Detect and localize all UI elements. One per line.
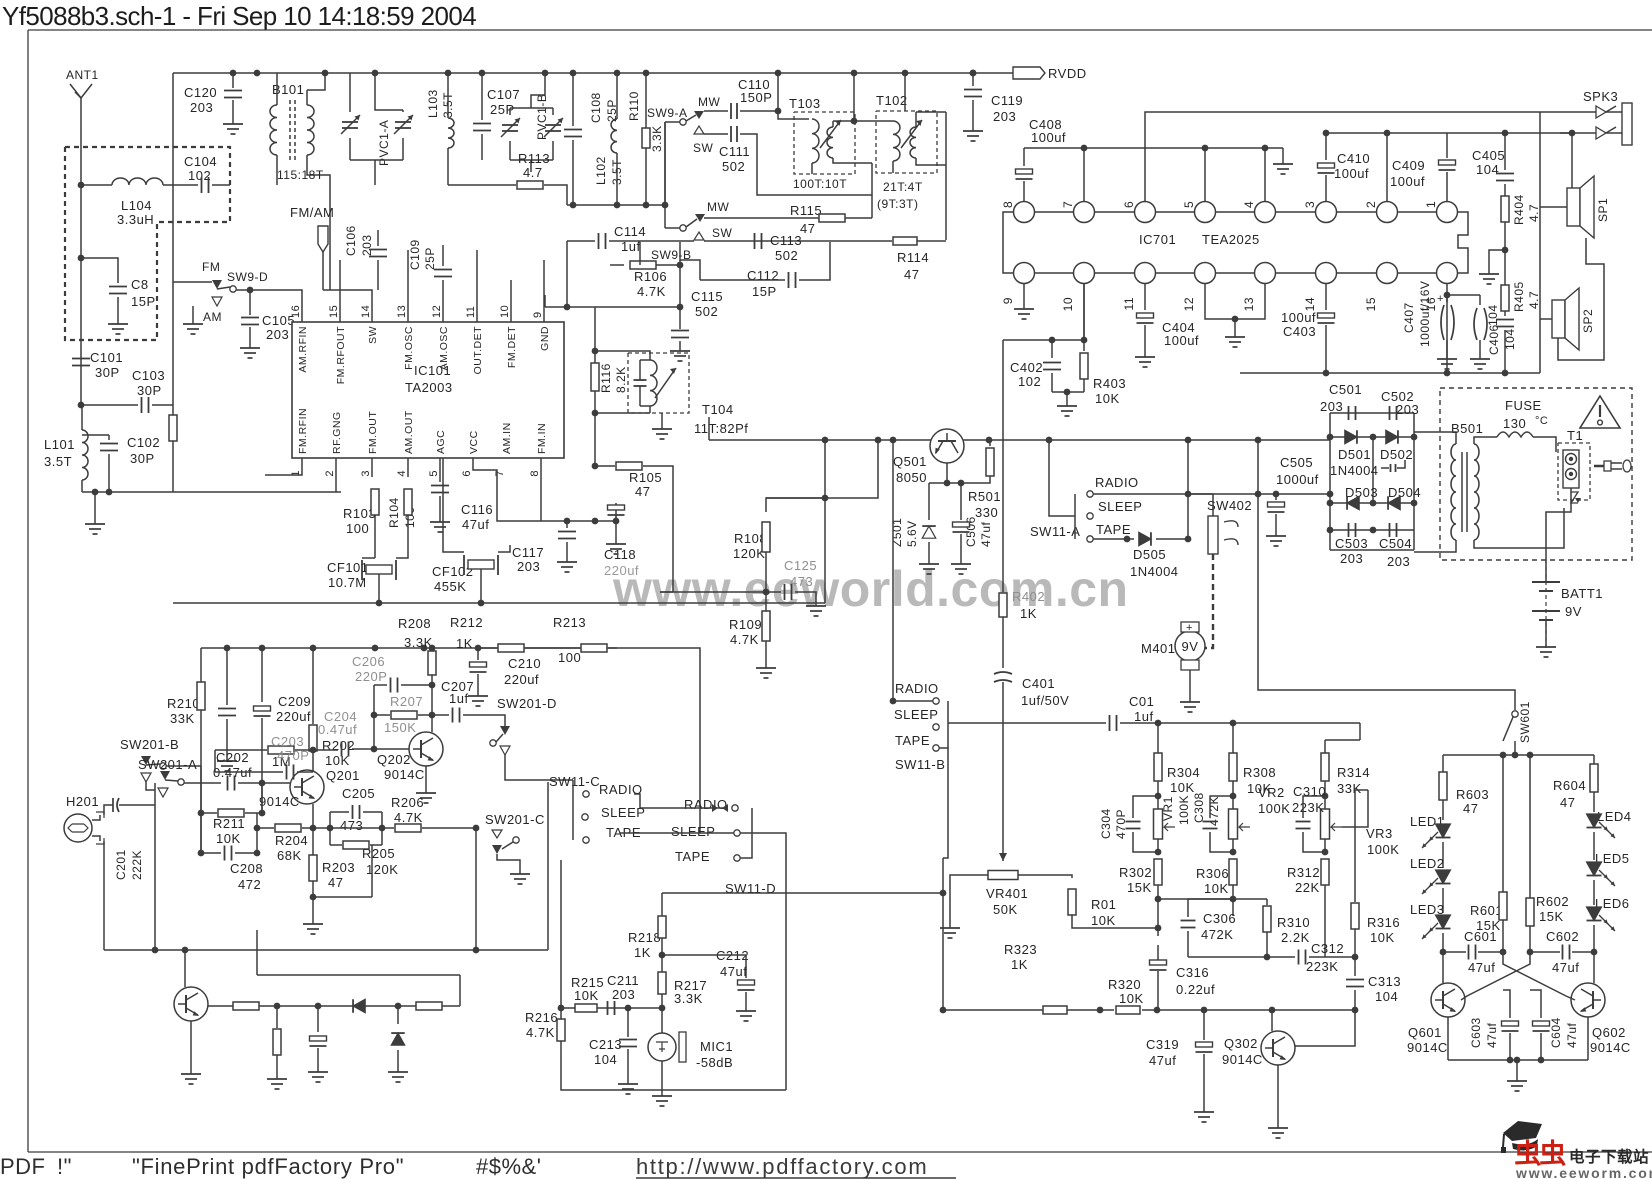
- svg-text:22K: 22K: [1295, 880, 1320, 895]
- svg-text:12: 12: [431, 305, 443, 318]
- svg-text:223K: 223K: [1292, 800, 1324, 815]
- dashed selection box: [65, 147, 230, 340]
- ground Z501: [928, 558, 930, 564]
- svg-text:Q302: Q302: [1224, 1036, 1258, 1051]
- svg-text:C109: C109: [408, 239, 422, 270]
- svg-text:100uf: 100uf: [1334, 166, 1369, 181]
- svg-text:C604: C604: [1549, 1017, 1563, 1048]
- svg-text:4.7K: 4.7K: [526, 1025, 555, 1040]
- wire osc collector row: [208, 1005, 460, 1007]
- svg-text:7: 7: [1061, 201, 1075, 208]
- svg-text:21T:4T: 21T:4T: [883, 180, 923, 194]
- svg-text:SP1: SP1: [1596, 198, 1610, 222]
- svg-text:102: 102: [1018, 374, 1041, 389]
- svg-text:10K: 10K: [574, 988, 599, 1003]
- svg-text:SW11-A: SW11-A: [1030, 524, 1080, 539]
- svg-text:1N4004: 1N4004: [1330, 463, 1379, 478]
- svg-text:2: 2: [1364, 201, 1378, 208]
- svg-text:33K: 33K: [1337, 781, 1362, 796]
- svg-text:13: 13: [396, 305, 408, 318]
- svg-text:104: 104: [1375, 989, 1398, 1004]
- svg-text:C125: C125: [784, 558, 817, 573]
- capacitor small bridge: [1390, 464, 1392, 472]
- svg-text:T1: T1: [1567, 428, 1583, 443]
- svg-text:(9T:3T): (9T:3T): [877, 197, 919, 211]
- svg-text:C402: C402: [1010, 360, 1043, 375]
- svg-text:C504: C504: [1379, 536, 1412, 551]
- svg-text:10K: 10K: [216, 831, 241, 846]
- svg-text:C116: C116: [461, 502, 493, 517]
- transistor Q202: [409, 732, 443, 766]
- ground SW201-C: [519, 868, 521, 874]
- svg-text:SW: SW: [712, 226, 733, 240]
- svg-text:47uf: 47uf: [1149, 1053, 1176, 1068]
- svg-text:R603: R603: [1456, 787, 1489, 802]
- svg-text:3: 3: [360, 470, 372, 477]
- IC101 top pin stubs: [339, 295, 341, 322]
- svg-text:C210: C210: [508, 656, 541, 671]
- svg-text:+: +: [1437, 293, 1444, 305]
- svg-text:#$%&': #$%&': [476, 1154, 541, 1179]
- svg-text:0.22uf: 0.22uf: [1176, 982, 1215, 997]
- wire pin10 node down: [1002, 340, 1004, 592]
- svg-text:C107: C107: [487, 87, 520, 102]
- svg-text:AM.OSC: AM.OSC: [438, 326, 450, 370]
- wire pin5 up: [1204, 148, 1206, 201]
- svg-text:T104: T104: [702, 402, 734, 417]
- svg-text:R602: R602: [1536, 894, 1569, 909]
- svg-text:C410: C410: [1337, 151, 1370, 166]
- svg-text:8: 8: [1001, 201, 1015, 208]
- svg-text:9014C: 9014C: [1222, 1052, 1263, 1067]
- svg-text:C503: C503: [1335, 536, 1368, 551]
- svg-text:L102: L102: [594, 156, 608, 185]
- svg-text:150K: 150K: [384, 720, 416, 735]
- svg-text:LED4: LED4: [1597, 809, 1632, 824]
- svg-text:SW9-A: SW9-A: [647, 106, 688, 120]
- svg-text:47: 47: [1560, 795, 1575, 810]
- svg-text:8.2K: 8.2K: [614, 366, 628, 393]
- svg-text:15K: 15K: [1539, 909, 1564, 924]
- svg-text:D503: D503: [1345, 485, 1378, 500]
- svg-text:FM/AM: FM/AM: [290, 205, 334, 220]
- svg-text:M401: M401: [1141, 641, 1176, 656]
- svg-text:-58dB: -58dB: [696, 1055, 733, 1070]
- wire pin9 ground: [1023, 284, 1025, 303]
- svg-text:L101: L101: [44, 437, 75, 452]
- svg-text:VR3: VR3: [1366, 826, 1393, 841]
- svg-text:203: 203: [1340, 551, 1363, 566]
- svg-text:15P: 15P: [752, 284, 777, 299]
- svg-text:222K: 222K: [130, 850, 144, 880]
- svg-text:Q201: Q201: [326, 768, 360, 783]
- wire bridge rails: [1330, 412, 1414, 414]
- svg-text:SW11-B: SW11-B: [895, 757, 945, 772]
- svg-text:30P: 30P: [137, 383, 162, 398]
- svg-text:1000uf/16V: 1000uf/16V: [1418, 281, 1432, 347]
- wire SW9D to IC: [236, 290, 302, 322]
- svg-text:30P: 30P: [95, 365, 120, 380]
- svg-text:223K: 223K: [1306, 959, 1338, 974]
- wire RADIO contact: [1093, 493, 1188, 495]
- svg-text:T102: T102: [876, 93, 908, 108]
- ground C319: [1203, 1106, 1205, 1112]
- svg-text:3.3uH: 3.3uH: [117, 212, 154, 227]
- svg-text:150P: 150P: [740, 90, 772, 105]
- svg-text:68K: 68K: [277, 848, 302, 863]
- svg-text:4: 4: [1242, 201, 1256, 208]
- svg-text:100K: 100K: [1177, 795, 1191, 825]
- svg-text:SPK3: SPK3: [1583, 89, 1618, 104]
- svg-text:220uf: 220uf: [604, 563, 639, 578]
- svg-text:R308: R308: [1243, 765, 1276, 780]
- svg-text:C603: C603: [1469, 1017, 1483, 1048]
- svg-text:220uf: 220uf: [276, 709, 311, 724]
- node ant-l104: [78, 182, 85, 189]
- svg-text:100K: 100K: [1367, 842, 1399, 857]
- transistor Q501: [930, 429, 964, 463]
- wire antenna down: [80, 130, 82, 405]
- svg-text:D505: D505: [1133, 547, 1166, 562]
- svg-text:PDF: PDF: [0, 1154, 46, 1179]
- node R116 top: [594, 307, 596, 466]
- svg-text:RVDD: RVDD: [1048, 66, 1087, 81]
- svg-text:10K: 10K: [1204, 881, 1229, 896]
- svg-text:472K: 472K: [1201, 927, 1233, 942]
- transistor Q602: [1571, 983, 1605, 1017]
- svg-text:15: 15: [328, 305, 340, 318]
- svg-text:R116: R116: [599, 363, 613, 393]
- wire bridge to bus: [1329, 437, 1331, 440]
- svg-text:R404: R404: [1512, 194, 1526, 225]
- svg-text:10K: 10K: [325, 753, 350, 768]
- svg-text:R105: R105: [629, 470, 662, 485]
- svg-text:D504: D504: [1388, 485, 1421, 500]
- svg-text:AM.RFIN: AM.RFIN: [297, 326, 309, 373]
- wire T1 to battery: [1546, 488, 1571, 552]
- svg-text:8: 8: [529, 470, 541, 477]
- svg-text:1uf/50V: 1uf/50V: [1021, 693, 1069, 708]
- svg-text:25P: 25P: [423, 247, 437, 270]
- svg-text:220uf: 220uf: [504, 672, 539, 687]
- wire osc second: [257, 974, 460, 976]
- wire bridge output: [1330, 549, 1414, 551]
- svg-text:9V: 9V: [1182, 639, 1199, 654]
- svg-text:R115: R115: [790, 203, 822, 218]
- svg-text:47uf: 47uf: [1552, 960, 1579, 975]
- wire pin6 VCC down: [473, 458, 541, 521]
- svg-text:47uf: 47uf: [1485, 1022, 1499, 1048]
- ground C404: [1144, 351, 1146, 357]
- svg-text:VCC: VCC: [468, 430, 480, 454]
- ground C212: [745, 1005, 747, 1011]
- svg-text:SW11-C: SW11-C: [549, 774, 600, 789]
- svg-text:FUSE: FUSE: [1505, 398, 1542, 413]
- IC U-IC101 TA2003 body: [292, 322, 564, 458]
- ground C407: [1446, 353, 1448, 359]
- svg-text:4.7K: 4.7K: [637, 284, 666, 299]
- svg-text:9014C: 9014C: [384, 767, 425, 782]
- svg-text:R310: R310: [1277, 915, 1310, 930]
- svg-text:FM.OUT: FM.OUT: [367, 411, 379, 454]
- svg-text:FM.OSC: FM.OSC: [403, 326, 415, 370]
- svg-text:1N4004: 1N4004: [1130, 564, 1179, 579]
- svg-text:R106: R106: [634, 269, 667, 284]
- ground emitter: [312, 897, 314, 918]
- svg-text:R405: R405: [1512, 281, 1526, 312]
- ground Q202: [425, 787, 427, 793]
- wire pin7 up: [1083, 148, 1085, 201]
- wire C108-L102 bottom: [567, 204, 665, 206]
- svg-text:C403: C403: [1283, 324, 1316, 339]
- svg-text:R501: R501: [968, 489, 1001, 504]
- svg-text:1K: 1K: [1011, 957, 1028, 972]
- ground C8: [117, 318, 119, 324]
- svg-text:C115: C115: [691, 289, 723, 304]
- svg-text:330: 330: [975, 505, 998, 520]
- svg-text:FM.RFIN: FM.RFIN: [297, 408, 309, 454]
- svg-text:C401: C401: [1022, 676, 1055, 691]
- svg-text:220P: 220P: [355, 669, 387, 684]
- svg-text:R211: R211: [213, 816, 245, 831]
- svg-text:http://www.pdffactory.com: http://www.pdffactory.com: [636, 1154, 928, 1179]
- svg-text:C213: C213: [589, 1037, 622, 1052]
- dashed box power: [1440, 388, 1632, 560]
- svg-text:15P: 15P: [131, 294, 156, 309]
- ground pins1213: [1234, 331, 1236, 337]
- svg-text:4: 4: [396, 470, 408, 477]
- svg-text:Z501: Z501: [890, 518, 904, 547]
- capacitor unnamed: [226, 648, 228, 705]
- svg-text:5.6V: 5.6V: [905, 520, 919, 547]
- wire left vertical x173: [172, 73, 174, 492]
- svg-text:2.2K: 2.2K: [1281, 930, 1310, 945]
- IC701 left bracket: [1003, 212, 1013, 273]
- svg-text:R312: R312: [1287, 865, 1320, 880]
- svg-text:C602: C602: [1546, 929, 1579, 944]
- transformer T104: [628, 353, 689, 413]
- wire T103 bottoms: [811, 163, 813, 174]
- ground C116: [439, 516, 441, 522]
- svg-text:1K: 1K: [456, 636, 473, 651]
- svg-text:R302: R302: [1119, 865, 1152, 880]
- ground BATT1: [1545, 641, 1547, 647]
- svg-text:100K: 100K: [1258, 801, 1290, 816]
- wire mic-block links: [561, 1060, 786, 1090]
- svg-text:30P: 30P: [130, 451, 155, 466]
- svg-text:1uf: 1uf: [449, 691, 469, 706]
- wire vr top bus: [1157, 723, 1159, 750]
- svg-text:H201: H201: [66, 794, 99, 809]
- wire vr3 right: [1355, 789, 1368, 791]
- svg-text:FM: FM: [202, 260, 220, 274]
- svg-text:4.7: 4.7: [1527, 291, 1541, 309]
- svg-text:R403: R403: [1093, 376, 1126, 391]
- svg-text:502: 502: [775, 248, 798, 263]
- wire bottom audio bus: [1240, 372, 1540, 374]
- wire audio bus y648: [201, 647, 617, 649]
- svg-text:203: 203: [993, 109, 1016, 124]
- svg-text:10K: 10K: [1095, 391, 1120, 406]
- svg-text:100uf: 100uf: [1281, 310, 1316, 325]
- svg-text:MW: MW: [698, 95, 720, 109]
- ground R404 mid: [1489, 250, 1505, 268]
- wire x878 to R108: [766, 440, 878, 512]
- svg-text:C319: C319: [1146, 1037, 1179, 1052]
- svg-text:15K: 15K: [1127, 880, 1152, 895]
- svg-text:47uf: 47uf: [1565, 1022, 1579, 1048]
- svg-text:10.7M: 10.7M: [328, 575, 367, 590]
- svg-text:R402: R402: [1012, 589, 1045, 604]
- svg-text:www.eeworld.com.cn: www.eeworld.com.cn: [612, 561, 1129, 617]
- svg-text:10K: 10K: [1119, 991, 1144, 1006]
- svg-text:3.3K: 3.3K: [404, 635, 433, 650]
- svg-text:1K: 1K: [634, 945, 651, 960]
- svg-text:R316: R316: [1367, 915, 1400, 930]
- ground cap: [226, 755, 228, 761]
- svg-text:115:18T: 115:18T: [277, 168, 324, 182]
- ground C506: [960, 558, 962, 564]
- wire LED bus: [1443, 754, 1594, 756]
- wire pin1 down: [265, 458, 302, 475]
- polarity mark: [1571, 492, 1578, 503]
- svg-text:4.7K: 4.7K: [730, 632, 759, 647]
- svg-text:9014C: 9014C: [259, 794, 300, 809]
- svg-text:L104: L104: [121, 198, 152, 213]
- wire pin2 up: [1386, 133, 1388, 201]
- svg-text:C406: C406: [1487, 324, 1501, 355]
- svg-text:9014C: 9014C: [1407, 1040, 1448, 1055]
- svg-text:R206: R206: [391, 795, 424, 810]
- wire main bus y441: [709, 439, 1330, 441]
- wire x943 down: [942, 858, 944, 1010]
- svg-text:R218: R218: [628, 930, 661, 945]
- wire R306 down: [1232, 899, 1234, 916]
- svg-text:C407: C407: [1402, 302, 1416, 333]
- ground C505: [1275, 530, 1277, 536]
- svg-text:SW402: SW402: [1207, 498, 1252, 513]
- svg-text:13: 13: [1242, 297, 1256, 311]
- ground C115: [679, 345, 681, 351]
- svg-text:C306: C306: [1203, 911, 1236, 926]
- svg-text:47uf: 47uf: [1468, 960, 1495, 975]
- svg-text:33K: 33K: [170, 711, 195, 726]
- svg-text:+: +: [1186, 622, 1193, 634]
- svg-text:AM: AM: [203, 310, 222, 324]
- ground C105: [249, 342, 251, 348]
- svg-text:VR401: VR401: [986, 886, 1028, 901]
- svg-text:8050: 8050: [896, 470, 927, 485]
- svg-text:C405: C405: [1472, 148, 1505, 163]
- node ant-c8: [78, 255, 85, 262]
- svg-text:R01: R01: [1091, 897, 1116, 912]
- svg-text:C205: C205: [342, 786, 375, 801]
- svg-text:4.7: 4.7: [523, 165, 543, 180]
- wire y950 up link: [547, 782, 549, 950]
- svg-text:47: 47: [328, 875, 343, 890]
- svg-text:C119: C119: [991, 93, 1023, 108]
- border frame: [27, 30, 29, 1152]
- svg-text:AM.IN: AM.IN: [501, 422, 513, 454]
- svg-text:472: 472: [238, 877, 261, 892]
- svg-text:47: 47: [800, 221, 815, 236]
- svg-text:6: 6: [461, 470, 473, 477]
- svg-text:104: 104: [1486, 304, 1500, 326]
- svg-text:SW9-D: SW9-D: [227, 270, 268, 284]
- svg-text:BATT1: BATT1: [1561, 586, 1603, 601]
- wire T102 sec to R114: [945, 112, 947, 240]
- svg-text:R203: R203: [322, 860, 355, 875]
- svg-text:7: 7: [494, 470, 506, 477]
- ground C118: [615, 538, 617, 544]
- svg-text:C206: C206: [352, 654, 385, 669]
- svg-text:PVC1-A: PVC1-A: [377, 120, 391, 166]
- svg-text:R210: R210: [167, 696, 200, 711]
- ground T104: [661, 413, 663, 423]
- svg-text:100uf: 100uf: [1390, 174, 1425, 189]
- transistor Qosc: [174, 987, 208, 1021]
- wire pin10 down: [1083, 284, 1085, 351]
- svg-text:C01: C01: [1129, 694, 1154, 709]
- transistor Q201: [290, 770, 324, 804]
- svg-text:10: 10: [499, 305, 511, 318]
- wire long bottom: [173, 602, 825, 604]
- transistor Q302: [1261, 1031, 1295, 1065]
- svg-text:470P: 470P: [277, 748, 309, 763]
- svg-text:°C: °C: [1535, 415, 1548, 427]
- svg-text:R314: R314: [1337, 765, 1370, 780]
- svg-text:C117: C117: [512, 545, 544, 560]
- ground 104: [1479, 353, 1481, 359]
- svg-text:12: 12: [1182, 297, 1196, 311]
- svg-text:R114: R114: [897, 250, 929, 265]
- svg-text:SW201-C: SW201-C: [485, 812, 545, 827]
- svg-text:RADIO: RADIO: [1095, 475, 1139, 490]
- svg-text:9: 9: [532, 311, 544, 318]
- svg-text:25P: 25P: [490, 102, 515, 117]
- wire T103 sec top: [833, 120, 854, 122]
- svg-text:C209: C209: [278, 694, 311, 709]
- svg-text:SP2: SP2: [1581, 309, 1595, 333]
- svg-text:MIC1: MIC1: [700, 1039, 733, 1054]
- wire x1188 down: [1187, 440, 1189, 540]
- svg-text:C304: C304: [1099, 808, 1113, 839]
- wire supply row y148: [1024, 147, 1283, 149]
- wire audio top y133: [1326, 132, 1572, 134]
- svg-text:4.7K: 4.7K: [394, 810, 423, 825]
- svg-text:203: 203: [266, 327, 289, 342]
- svg-text:14: 14: [360, 305, 372, 318]
- ground C210: [477, 690, 479, 696]
- ground Qosc: [190, 1068, 192, 1074]
- capacitor osc: [317, 1006, 319, 1032]
- speaker SP2: [1552, 300, 1565, 338]
- svg-text:47uf: 47uf: [720, 964, 747, 979]
- svg-text:9014C: 9014C: [1590, 1040, 1631, 1055]
- svg-text:473: 473: [790, 574, 813, 589]
- svg-text:455K: 455K: [434, 579, 466, 594]
- wire T102 primary top: [854, 120, 893, 122]
- node pin8 wire: [592, 518, 599, 525]
- svg-text:TEA2025: TEA2025: [1202, 232, 1260, 247]
- svg-text:R110: R110: [627, 91, 641, 121]
- svg-text:C111: C111: [719, 144, 750, 159]
- svg-text:R109: R109: [729, 617, 762, 632]
- ground R109: [765, 662, 767, 668]
- svg-text:IC701: IC701: [1139, 232, 1176, 247]
- ground C120: [232, 118, 234, 124]
- wire x893 down: [892, 440, 894, 701]
